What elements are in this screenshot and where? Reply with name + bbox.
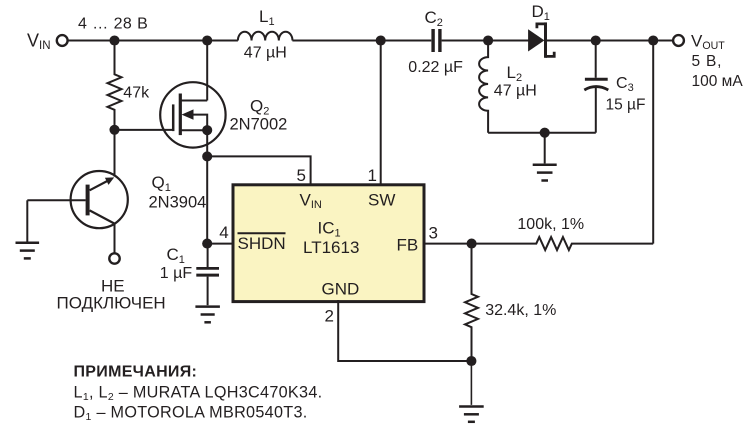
wire FB riser [652,41,654,244]
svg-text:ПОДКЛЮЧЕН: ПОДКЛЮЧЕН [57,294,166,313]
node: rail junction at Q2 drain [202,35,212,45]
svg-text:2N3904: 2N3904 [149,194,207,212]
wire top rail left [68,40,238,42]
svg-text:4: 4 [219,223,228,242]
pin 4 label [219,223,228,242]
svg-text:Q1: Q1 [152,173,171,194]
inductor L1 [238,32,293,41]
svg-text:C2: C2 [425,8,443,29]
resistor 32.4k [465,244,478,361]
label L1 [259,7,275,28]
IC label IC1 [318,219,341,240]
wire Q2 drain to rail [206,41,208,101]
svg-text:L1, L2 – MURATA LQH3C470K34.: L1, L2 – MURATA LQH3C470K34. [74,384,323,404]
label 4...28 V [78,16,148,33]
wire top rail right of C2 [442,40,529,42]
terminal NC circle [109,253,119,263]
ground (C1) [195,307,220,323]
transistor Q2 drain tap [180,100,207,102]
transistor Q2 source tap [180,129,207,131]
svg-text:100k, 1%: 100k, 1% [517,216,584,233]
notes title [74,364,198,381]
IC label LT1613 [303,238,359,257]
label VOUT [691,32,725,53]
label 32.4k 1% [485,302,556,319]
inductor L2 [479,41,488,133]
svg-text:D1 – MOTOROLA MBR0540T3.: D1 – MOTOROLA MBR0540T3. [74,404,308,424]
transistor Q2 gate electrode [172,104,175,131]
terminal VIN [57,35,68,46]
wire pin 1 riser [380,41,382,186]
svg-text:32.4k, 1%: 32.4k, 1% [485,302,556,319]
svg-text:4 … 28 В: 4 … 28 В [78,16,148,33]
IC label SHDN with overline [238,233,286,253]
IC label GND [322,280,360,299]
node: bottom junction [540,128,550,138]
capacitor C2 [431,29,441,52]
node: FB junction [467,239,477,249]
label D1 [532,2,550,23]
node: rail junction at FB riser [648,35,658,45]
node: Q2 source dot [202,125,212,135]
wire pin 3 to FB node [423,243,472,245]
wire gate lead [115,129,174,131]
transistor Q1 base bar [86,185,90,216]
pin 2 label [325,307,334,326]
IC label SW [368,191,395,210]
svg-text:LT1613: LT1613 [303,238,359,257]
label NE [101,277,125,296]
note line 2 [74,404,308,424]
svg-text:1 µF: 1 µF [160,265,193,282]
svg-text:SHDN: SHDN [238,234,286,253]
svg-text:2N7002: 2N7002 [230,116,288,134]
label Q1 [152,173,171,194]
note line 1 [74,384,323,404]
svg-text:FB: FB [397,236,419,255]
wire SHDN to IC [207,243,234,245]
node: rail junction at SW pin [376,35,386,45]
label 2N7002 [230,116,288,134]
label Q2 [250,97,269,118]
label 100k 1% [517,216,584,233]
wire pin 2 to ground run [338,300,471,361]
svg-text:0.22 µF: 0.22 µF [408,59,463,76]
capacitor C3 [584,41,608,133]
wire Q1 base lead [27,199,85,201]
label VIN [27,30,51,52]
svg-text:47 µH: 47 µH [494,83,537,100]
svg-text:5 В,: 5 В, [692,53,723,70]
pin 3 label [429,224,438,243]
resistor 100k [472,237,654,250]
pin 5 label [297,166,306,185]
capacitor C1 [196,244,219,306]
wire Q2 source down [206,130,208,156]
label L2 [507,63,523,84]
svg-text:GND: GND [322,280,360,299]
transistor Q2 body arrow [182,109,208,130]
node: ground junction [466,356,476,366]
svg-text:D1: D1 [532,2,550,23]
wire Q1 emitter to gate node [114,130,116,177]
node: SHDN junction [202,239,212,249]
label C2 [425,8,443,29]
node: rail junction at 47k [109,35,119,45]
node: rail junction at C3 [591,35,601,45]
node: rail junction at L2 [483,35,493,45]
svg-text:C3: C3 [616,75,634,94]
diode D1 [528,22,554,57]
svg-text:Q2: Q2 [250,97,269,118]
wire stub to ground [470,361,472,405]
label C3 [616,75,634,94]
label 2N3904 [149,194,207,212]
svg-text:C1: C1 [167,245,185,266]
svg-text:47 µH: 47 µH [244,45,287,62]
svg-text:1: 1 [368,166,377,185]
svg-text:SW: SW [368,191,395,210]
label PODKLYUCHEN [57,294,166,313]
resistor R 47k [108,41,122,130]
terminal VOUT [673,35,684,46]
svg-text:100 мА: 100 мА [692,73,744,90]
wire top rail to VOUT [547,40,673,42]
wire bottom run L2-C3 [488,132,596,134]
label 0.22 uF [408,59,463,76]
label 100 mA [692,73,744,90]
IC label VIN [300,191,322,212]
transistor Q2 body circle [160,82,225,147]
ground (divider) [459,407,484,422]
svg-text:L1: L1 [259,7,275,28]
wire stub to ground (output) [544,133,546,164]
IC1 box [233,185,424,302]
wire to pin 5 [207,156,310,185]
wire top rail mid [292,40,431,42]
IC label FB [397,236,419,255]
pin 1 label [368,166,377,185]
label 47 uH (L2) [494,83,537,100]
label 47k [123,85,150,102]
svg-text:5: 5 [297,166,306,185]
transistor Q2 channel bar [179,94,182,136]
svg-text:VOUT: VOUT [691,32,725,53]
ground (output filter) [533,165,557,181]
svg-text:15 µF: 15 µF [606,97,646,114]
svg-text:3: 3 [429,224,438,243]
transistor Q1 collector [90,210,115,223]
wire Q1 collector down [114,224,116,254]
node: gate junction [109,125,119,135]
transistor Q1 emitter with arrow [90,177,115,190]
label 47 uH (L1) [244,45,287,62]
node: source/pin5 junction [202,151,212,161]
transistor Q1 body circle [71,171,128,228]
label 1 uF [160,265,193,282]
svg-text:VIN: VIN [27,30,51,52]
wire Q1 base to ground [26,200,28,242]
label 5 V [692,53,723,70]
label 15 uF [606,97,646,114]
svg-text:2: 2 [325,307,334,326]
svg-text:ПРИМЕЧАНИЯ:: ПРИМЕЧАНИЯ: [74,364,198,381]
wire down to SHDN node [206,156,208,243]
ground (Q1 base) [16,243,40,259]
svg-text:47k: 47k [123,85,150,102]
label C1 [167,245,185,266]
svg-text:L2: L2 [507,63,523,84]
